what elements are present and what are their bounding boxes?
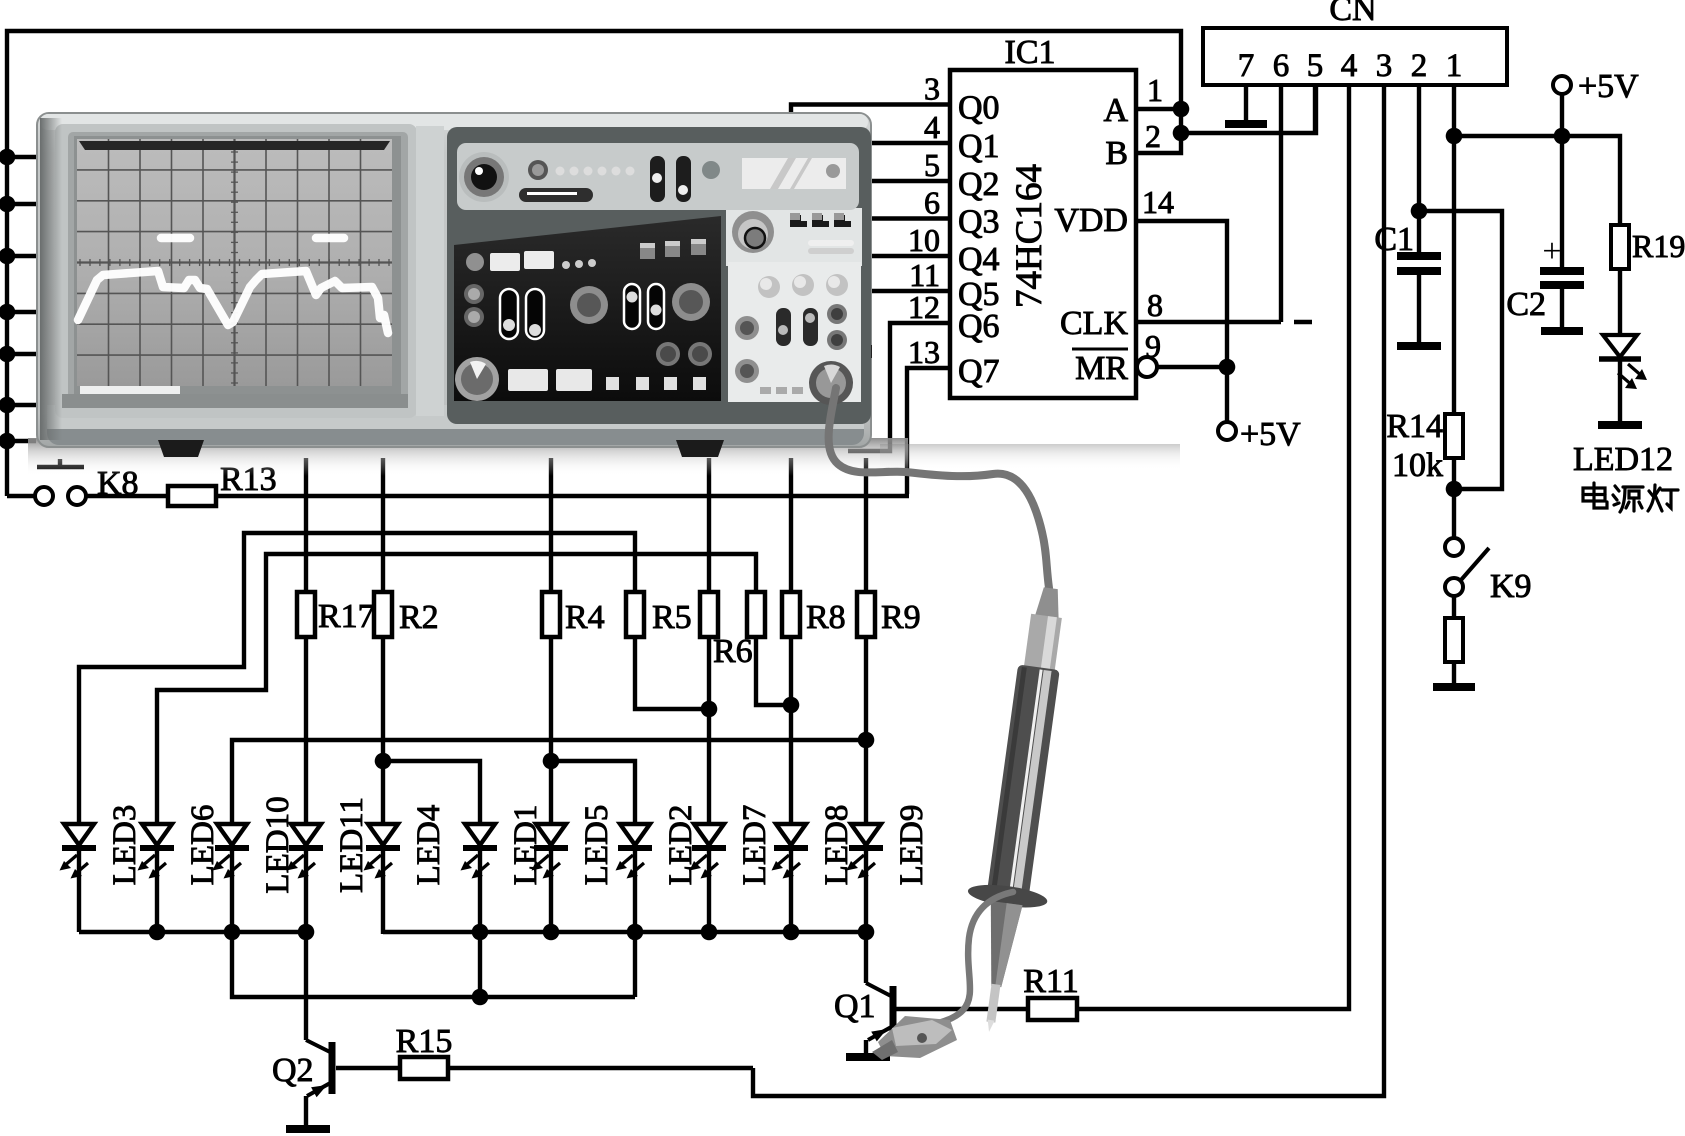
LED LED6 — [138, 824, 175, 879]
svg-text:7: 7 — [1238, 48, 1255, 84]
svg-text:+: + — [1542, 233, 1561, 270]
wire: +5V rail to R19 — [1560, 94, 1564, 267]
svg-text:CLK: CLK — [1060, 305, 1128, 342]
connector CN — [1203, 28, 1507, 85]
dash mark after CLK wire — [1294, 320, 1312, 325]
wire: CN pin1 down to R14 — [1452, 85, 1456, 414]
svg-text:LED12: LED12 — [1573, 441, 1673, 478]
svg-text:LED4: LED4 — [411, 805, 447, 886]
ground below K9 — [1433, 683, 1475, 691]
wire: CN pin2 down to C1 — [1417, 85, 1421, 252]
wire: branch to LED1 — [383, 761, 480, 824]
switch K9 — [1445, 538, 1463, 556]
svg-text:+5V: +5V — [1578, 68, 1639, 105]
label 电源灯 (hand drawn) — [1583, 483, 1678, 512]
wire: Q6 pin stub down behind scope — [848, 323, 950, 451]
wire: IC pin 3 Q0 stub — [791, 105, 950, 121]
svg-text:4: 4 — [1341, 48, 1358, 84]
svg-text:13: 13 — [908, 334, 940, 370]
resistor R5 — [626, 592, 644, 637]
svg-text:2: 2 — [1145, 118, 1161, 154]
resistor R2 — [374, 592, 392, 637]
svg-text:10: 10 — [908, 222, 940, 258]
svg-text:Q1: Q1 — [834, 988, 876, 1025]
svg-text:10k: 10k — [1392, 447, 1443, 484]
LED LED1 — [461, 824, 498, 879]
LED LED2 — [616, 824, 653, 879]
wire: column R9 from scope — [864, 458, 868, 592]
resistor R19 — [1611, 225, 1629, 269]
wire: its bottom to R8 column — [756, 637, 791, 705]
svg-text:6: 6 — [924, 185, 940, 221]
svg-text:LED5: LED5 — [579, 805, 615, 886]
svg-text:+5V: +5V — [1240, 416, 1301, 453]
wire: LED10 top jog to R9 column — [232, 740, 866, 824]
wire: R2 to LED4 with branch node — [381, 637, 385, 824]
LED LED4 — [364, 824, 401, 879]
wire: R9 to LED9 — [864, 637, 868, 824]
svg-text:R4: R4 — [565, 599, 605, 636]
wire: IC left pin stub — [852, 141, 950, 145]
svg-text:C2: C2 — [1506, 286, 1546, 323]
LED LED8 — [772, 824, 809, 879]
svg-text:12: 12 — [908, 289, 940, 325]
wire: CN pin6 down to CLK — [1279, 85, 1283, 322]
wire: CN pin4 down to R11 — [1077, 85, 1349, 1009]
LED LED5 — [532, 824, 569, 879]
resistor R9 — [857, 592, 875, 637]
resistor below K9 (unlabeled) — [1445, 618, 1463, 662]
svg-text:B: B — [1105, 135, 1128, 172]
wire: C1 node to R14 bottom node — [1419, 211, 1502, 489]
wire: cathode rail left segment — [79, 930, 306, 934]
svg-text:R19: R19 — [1632, 228, 1685, 264]
svg-text:5: 5 — [924, 147, 940, 183]
wire: pin2 B to node — [1136, 109, 1181, 153]
wire: jog from LED6 up to unlabeled resistor top — [157, 554, 756, 824]
LED LED3 — [60, 824, 97, 879]
wire: R17 to LED11 — [304, 637, 308, 824]
wire: R4 to LED5 with branch node — [549, 637, 553, 824]
wire: cathode rail right segment — [383, 930, 866, 934]
LED12 power lamp — [1603, 335, 1637, 357]
svg-text:LED7: LED7 — [737, 805, 773, 886]
ground below K9 — [1452, 662, 1456, 683]
+5V supply terminal top right — [1553, 76, 1571, 94]
CN pin7 to ground — [1244, 85, 1248, 120]
resistor R8 — [782, 592, 800, 637]
wire: column R2 from scope — [381, 458, 385, 592]
svg-text:Q1: Q1 — [958, 128, 1000, 165]
svg-text:R2: R2 — [399, 599, 439, 636]
svg-text:A: A — [1103, 92, 1128, 129]
resistor R4 — [542, 592, 560, 637]
svg-text:LED10: LED10 — [260, 796, 296, 893]
svg-text:K9: K9 — [1490, 568, 1532, 605]
wire: R8 to LED8 — [789, 637, 793, 824]
svg-text:Q0: Q0 — [958, 90, 1000, 127]
svg-text:R6: R6 — [713, 633, 753, 670]
wire: IC left pin stub — [852, 216, 950, 220]
oscilloscope photo — [28, 113, 1180, 476]
svg-text:1: 1 — [1446, 48, 1463, 84]
pin9 MR bubble and wire — [1137, 357, 1157, 377]
svg-text:R9: R9 — [881, 599, 921, 636]
svg-text:5: 5 — [1307, 48, 1324, 84]
wire: K9 to resistor — [1452, 596, 1456, 618]
wire: R5 bottom to R6 column — [635, 637, 709, 709]
svg-text:14: 14 — [1142, 184, 1174, 220]
wire: IC left pin stub — [852, 254, 950, 258]
svg-text:2: 2 — [1411, 48, 1428, 84]
IC1 74HC164 — [950, 70, 1136, 398]
capacitor C2 electrolytic — [1544, 251, 1564, 253]
test probe — [949, 583, 1089, 1038]
svg-text:R14: R14 — [1386, 408, 1443, 445]
svg-text:74HC164: 74HC164 — [1009, 164, 1050, 308]
wire: column R4 from scope — [549, 458, 553, 592]
wire: lower rail — [232, 932, 635, 997]
transistor Q2 PNP — [304, 932, 308, 1040]
wire: column R17 from scope — [304, 458, 308, 592]
wire: R19 to LED12 — [1618, 269, 1622, 333]
wire: CN pin3 down to bottom line — [753, 85, 1384, 1096]
wire: Q7 pin stub — [907, 368, 950, 494]
wire: R13 line to IC pin13 (Q7) — [216, 494, 909, 498]
svg-text:R8: R8 — [806, 599, 846, 636]
svg-text:LED9: LED9 — [894, 805, 930, 886]
wire: IC left pin stub — [852, 289, 950, 293]
svg-text:Q4: Q4 — [958, 241, 1000, 278]
wire: Q2 base to R15 — [336, 1066, 400, 1070]
+5V terminal at MR — [1225, 367, 1229, 422]
svg-text:3: 3 — [924, 71, 940, 107]
capacitor C1 — [1397, 252, 1441, 260]
svg-text:Q3: Q3 — [958, 204, 1000, 241]
wire: top rail from left frame to IC pin1 node — [7, 31, 1181, 496]
svg-text:R17: R17 — [318, 598, 375, 635]
LED LED11 — [287, 824, 324, 879]
svg-text:1: 1 — [1147, 72, 1163, 108]
svg-text:C1: C1 — [1374, 221, 1414, 258]
svg-text:4: 4 — [924, 109, 940, 145]
resistor R15 — [400, 1057, 448, 1079]
wire: IC left pin stub — [852, 179, 950, 183]
resistor R14 10k — [1445, 414, 1463, 458]
svg-text:11: 11 — [909, 257, 940, 293]
svg-text:R11: R11 — [1023, 963, 1078, 1000]
transistor Q1 PNP — [864, 932, 868, 983]
probe ground lead with alligator clip — [921, 892, 1013, 1030]
svg-text:CN: CN — [1329, 0, 1376, 28]
resistor R17 — [297, 592, 315, 637]
svg-text:Q6: Q6 — [958, 308, 1000, 345]
wire: R6 to LED7 — [707, 637, 711, 824]
wire: branch to LED2 — [551, 761, 635, 824]
resistor R11 — [1028, 998, 1077, 1020]
svg-text:IC1: IC1 — [1005, 34, 1056, 71]
wire: pin14 VDD to MR node — [1136, 221, 1227, 367]
wire: node B to CN pin5 — [1181, 85, 1316, 133]
switch K8 — [7, 494, 35, 498]
svg-text:8: 8 — [1147, 287, 1163, 323]
resistor R6 — [700, 592, 718, 637]
wire: pin1 A to node — [1136, 107, 1181, 111]
wire: bottom line R15 to CN pin3 — [448, 1066, 753, 1070]
LED LED9 — [847, 824, 884, 879]
wire: column R6 from scope — [707, 458, 711, 592]
wire: R11 to Q1 base — [895, 1007, 1028, 1011]
svg-text:VDD: VDD — [1054, 202, 1128, 239]
wire: column R8 from scope — [789, 458, 793, 592]
svg-text:MR: MR — [1075, 350, 1128, 387]
svg-text:LED3: LED3 — [107, 805, 143, 886]
probe cable to oscilloscope — [829, 388, 1049, 588]
wire: jog from LED3 up to R5 top — [79, 533, 635, 824]
svg-text:LED11: LED11 — [334, 797, 370, 893]
svg-text:Q2: Q2 — [272, 1052, 314, 1089]
svg-text:6: 6 — [1273, 48, 1290, 84]
svg-text:3: 3 — [1376, 48, 1393, 84]
wire: pin8 CLK to CN pin6 — [1136, 320, 1281, 324]
svg-text:Q7: Q7 — [958, 353, 1000, 390]
LED LED10 — [213, 824, 250, 879]
svg-text:R15: R15 — [396, 1023, 453, 1060]
LED LED7 — [690, 824, 727, 879]
svg-text:R5: R5 — [652, 599, 692, 636]
wire: R14 to K9 — [1452, 458, 1456, 538]
svg-text:Q2: Q2 — [958, 166, 1000, 203]
resistor R13 — [86, 494, 168, 498]
wire: CN pin5 down — [1313, 85, 1317, 135]
wire: left rail stubs to oscilloscope — [7, 155, 36, 159]
resistor (unlabeled, R6 group) — [747, 592, 765, 637]
